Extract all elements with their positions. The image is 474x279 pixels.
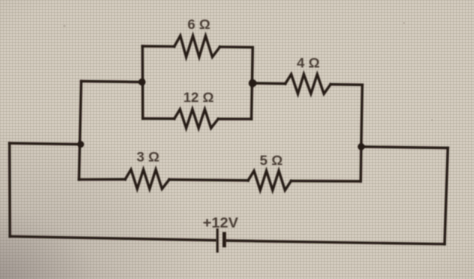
resistor R3 4-ohm zigzag [285, 74, 330, 94]
svg-text:12 Ω: 12 Ω [183, 89, 214, 105]
resistor R1 6-ohm zigzag [174, 36, 220, 57]
wire 6-ohm top leads [143, 45, 175, 48]
wire far-left vertical [8, 143, 11, 236]
wire 12-ohm bottom leads [143, 117, 175, 120]
wire left-mid horizontal (node A to far-left) [10, 143, 81, 144]
svg-text:5 Ω: 5 Ω [260, 152, 283, 168]
svg-text:4 Ω: 4 Ω [297, 54, 320, 70]
wire middle row right lead [291, 180, 361, 183]
svg-text:6 Ω: 6 Ω [188, 16, 211, 32]
resistor R2 12-ohm zigzag [174, 109, 218, 128]
wire bottom right (battery - to right) [227, 241, 445, 245]
wire bottom left (to battery +) [10, 236, 216, 240]
node D junction dot (right) [358, 143, 365, 150]
wire top-right horizontal (to node D) [361, 147, 448, 148]
wire between 3-ohm and 5-ohm [169, 178, 248, 181]
svg-text:3 Ω: 3 Ω [137, 149, 160, 165]
battery V1 positive plate (long) [216, 228, 218, 252]
resistor R5 5-ohm zigzag [248, 171, 291, 190]
wire parallel-box right vertical [251, 47, 252, 119]
svg-text:+12V: +12V [203, 214, 238, 231]
node A junction dot [78, 141, 85, 148]
resistor R4 3-ohm zigzag [125, 170, 169, 189]
wire middle-right vertical up to node D [359, 147, 362, 182]
node B junction dot (parallel left) [138, 78, 145, 85]
wire 4-ohm leads [253, 82, 286, 85]
wire left branch vertical (through node A) [81, 80, 142, 83]
wire left vertical down [79, 81, 81, 179]
battery V1 negative plate (short thick) [223, 232, 227, 247]
wire right vertical [445, 148, 448, 244]
wire parallel-box left vertical [141, 46, 144, 118]
node C junction dot (parallel right) [249, 79, 257, 87]
wire middle row left lead [79, 178, 125, 181]
wire node D up to 4-ohm branch [361, 85, 362, 147]
